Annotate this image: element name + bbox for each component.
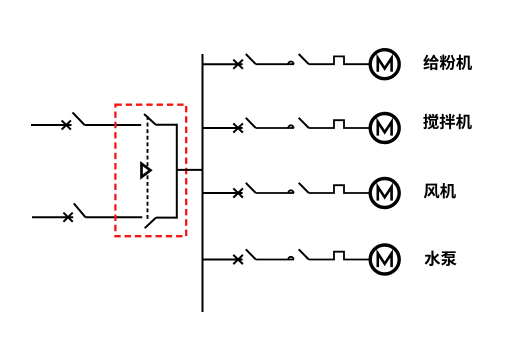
wire with thermal relay FR4 heater bump bbox=[309, 252, 371, 260]
wire switch to contactor bbox=[256, 63, 294, 65]
interlock triangle symbol bbox=[142, 164, 151, 177]
contactor KM3 blade bbox=[299, 183, 309, 193]
wire upper blade to common bbox=[156, 124, 177, 126]
label 搅拌机 bbox=[423, 114, 472, 129]
contactor KM2 blade bbox=[299, 118, 309, 128]
common vertical connector of transfer switch bbox=[176, 124, 178, 219]
disconnect switch QS5 blade bbox=[246, 183, 256, 193]
wire lower blade to common bbox=[156, 217, 177, 219]
transfer switch SA upper blade bbox=[144, 114, 156, 125]
disconnect switch QS3 blade bbox=[246, 54, 256, 64]
motor M3 letter M bbox=[378, 187, 392, 201]
motor M4 circle bbox=[370, 245, 399, 274]
bus bar bbox=[202, 54, 204, 312]
wire switch to contactor bbox=[256, 192, 294, 194]
contactor KM4 fixed contact (semicircle) bbox=[288, 257, 293, 260]
wire bus to fuse, branch 4 bbox=[203, 259, 243, 261]
fuse mark feeder 2 (x) bbox=[63, 213, 72, 222]
contactor KM4 blade bbox=[299, 249, 309, 259]
disconnect switch QS4 blade bbox=[246, 118, 256, 128]
transfer switch SA lower blade bbox=[145, 218, 156, 229]
disconnect switch QS2 blade bbox=[74, 203, 86, 217]
wire switch to contactor bbox=[256, 259, 294, 261]
wire with thermal relay FR1 heater bump bbox=[309, 56, 371, 64]
fuse FU3 (x mark) bbox=[233, 188, 243, 197]
wire QS1 to transfer switch bbox=[85, 124, 142, 126]
label 给粉机 bbox=[423, 55, 472, 70]
contactor KM2 fixed contact (semicircle) bbox=[288, 125, 293, 128]
contactor KM1 blade bbox=[299, 54, 309, 64]
wire incoming feeder 1 bbox=[31, 124, 72, 126]
mechanical link (dashed) of transfer switch bbox=[147, 116, 149, 221]
wire incoming feeder 2 bbox=[32, 216, 73, 218]
label 风机 bbox=[424, 183, 456, 198]
fuse mark feeder 1 (x) bbox=[62, 120, 71, 129]
ATS enclosure (red dashed box) bbox=[115, 105, 186, 237]
disconnect switch QS1 blade bbox=[73, 112, 85, 125]
wire bus to fuse, branch 1 bbox=[203, 63, 243, 65]
wire with thermal relay FR2 heater bump bbox=[309, 120, 371, 128]
fuse FU1 (x mark) bbox=[233, 60, 243, 69]
wire with thermal relay FR3 heater bump bbox=[309, 185, 371, 193]
fuse FU2 (x mark) bbox=[233, 123, 243, 132]
contactor KM3 fixed contact (semicircle) bbox=[288, 190, 293, 193]
label 水泵 bbox=[425, 251, 457, 266]
wire QS2 to transfer switch bbox=[85, 216, 142, 218]
disconnect switch QS6 blade bbox=[246, 249, 256, 259]
contactor KM1 fixed contact (semicircle) bbox=[288, 62, 293, 65]
motor M2 letter M bbox=[378, 122, 392, 136]
fuse FU4 (x mark) bbox=[233, 255, 243, 264]
wire bus to fuse, branch 2 bbox=[203, 127, 243, 129]
motor M4 letter M bbox=[378, 253, 392, 267]
motor M1 circle bbox=[370, 50, 399, 79]
motor M1 letter M bbox=[378, 58, 392, 72]
motor M2 circle bbox=[370, 114, 399, 143]
wire bus to fuse, branch 3 bbox=[203, 192, 243, 194]
motor M3 circle bbox=[370, 179, 399, 208]
wire switch to contactor bbox=[256, 127, 294, 129]
wire transfer switch output to bus bbox=[177, 169, 203, 171]
